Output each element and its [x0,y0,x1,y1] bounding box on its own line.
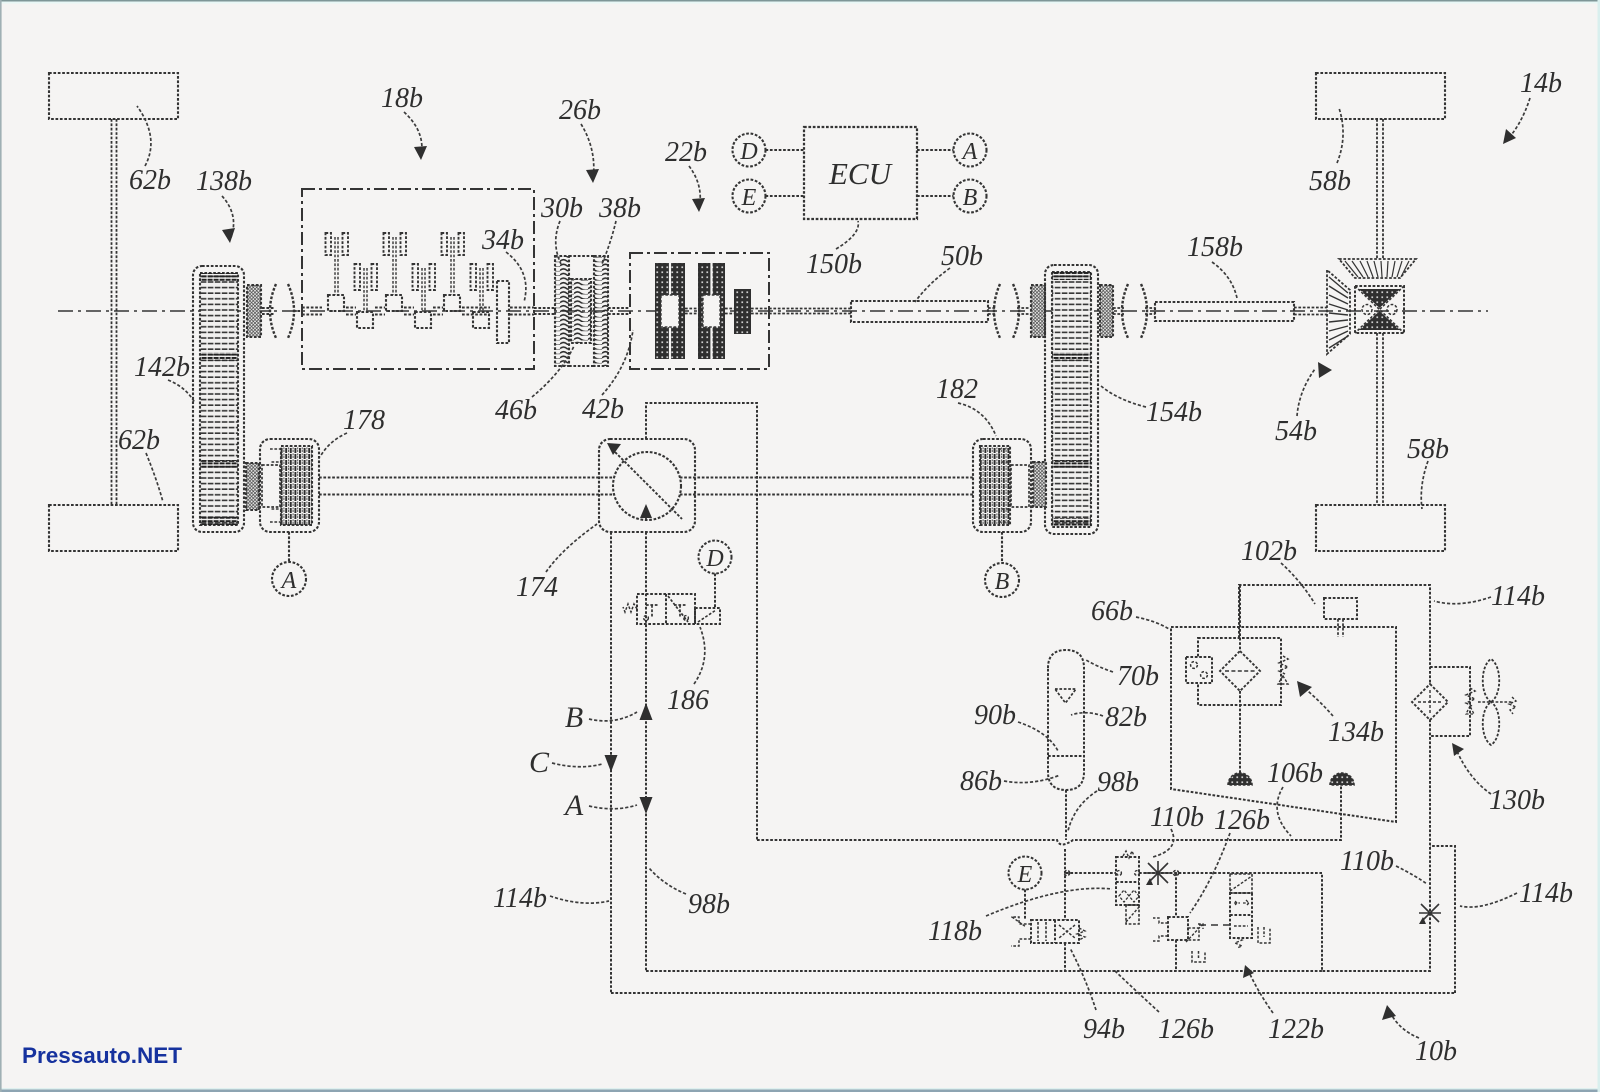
leader 46b [532,346,574,397]
svg-text:102b: 102b [1241,536,1297,567]
ground sensor circle A [272,562,306,596]
clutch 26b left wavy band 30b [555,256,569,366]
svg-text:D: D [739,139,757,165]
pump 174 variable arrow [612,449,682,519]
check dome 106b left [1228,773,1252,785]
svg-text:C: C [529,746,550,779]
wheel 58b bottom-right [1316,505,1445,551]
svg-text:182: 182 [936,374,978,405]
pump inlet arrow [645,508,647,520]
svg-text:130b: 130b [1489,785,1545,816]
valve 110b body [1116,857,1139,905]
svg-text:126b: 126b [1158,1014,1214,1045]
svg-text:110b: 110b [1150,802,1204,833]
CV joint coupling left (parentheses) [270,284,276,338]
svg-text:58b: 58b [1309,166,1351,197]
svg-text:158b: 158b [1187,232,1243,263]
clutch 26b right wavy band 38b [594,256,608,366]
wire 122b to line [1240,872,1242,874]
axle shaft left (vertical) [112,119,117,505]
leader 42b [602,330,633,395]
piston cylinder 6 (down) [471,264,477,290]
relief valve spring in 66b [1279,656,1288,674]
wire line C horizontal bottom 114b [611,992,1455,994]
arrowhead 138b [222,228,235,243]
axle shaft right lower [1377,333,1383,505]
main axis center line [58,310,1488,312]
transmission 22b dash-dot box [630,253,769,369]
solenoid pump symbol in 66b [1186,657,1212,683]
leader 50b [915,268,950,302]
wire ECU to A [917,149,954,151]
svg-text:46b: 46b [495,395,537,426]
star orifice on riser 114b [1419,904,1441,922]
svg-text:E: E [741,185,757,211]
svg-text:138b: 138b [196,166,252,197]
pump 174 circle [613,452,681,520]
valve 110b spring top [1123,851,1134,858]
drive shaft bar 50b [851,301,988,322]
svg-text:154b: 154b [1146,397,1202,428]
svg-text:50b: 50b [941,241,983,272]
gear 138b/142b inner hatched body [200,273,238,525]
cooler diamond [1412,684,1448,720]
svg-text:90b: 90b [974,700,1016,731]
ECU box 150b [804,127,917,219]
pilot circle E [1009,857,1042,890]
wheel 58b top-right [1316,73,1445,119]
arrowhead 134b [1297,681,1312,697]
svg-text:82b: 82b [1105,702,1147,733]
leader A node [589,805,637,809]
wire pto shaft upper (double line clutch178 to clutch182) [319,478,973,495]
wire E to ECU [766,195,805,197]
leader C node [552,763,602,767]
wire E to valve 94b [1024,890,1026,921]
valve 94b pilot bracket [1011,917,1031,946]
valve 122b solenoid top [1230,874,1252,893]
leader 130b [1456,749,1491,794]
svg-text:98b: 98b [1097,767,1139,798]
border frame right [1598,0,1600,1092]
leader 10b [1390,1012,1419,1038]
svg-text:18b: 18b [381,83,423,114]
svg-text:186: 186 [667,685,709,716]
wire 102b drop line through 66b [1239,585,1241,773]
star orifice on line 110b [1146,861,1170,885]
wire line B (x=646 pump down) [645,532,647,971]
sensor circle B right [954,180,987,213]
gear 154b inner hatched body [1052,272,1091,527]
arrowhead 14b [1503,129,1516,144]
ground tank below 126b [1192,951,1205,962]
leader 66b [1136,617,1169,629]
wire line 110b to corner [1139,872,1322,874]
leader 54b [1297,369,1315,416]
spline bearing right of gear 154b [1100,285,1113,337]
CV joint coupling right of 50b [994,284,1000,338]
wire line down to valve 94b [1064,849,1066,971]
sensor circle D top [733,134,766,167]
svg-text:142b: 142b [134,352,190,383]
leader 106b [1277,787,1291,836]
leader 150b [836,221,858,249]
leader 186 [694,627,705,684]
valve 122b spring below [1235,938,1242,948]
svg-text:62b: 62b [118,425,160,456]
wire pump top loop [646,403,757,840]
piston cylinder 4 (down) [413,264,419,290]
leader 102b [1281,563,1315,604]
svg-text:106b: 106b [1267,758,1323,789]
leader 70b [1086,660,1113,672]
accumulator fluid line 86b [1048,755,1084,757]
valve 126b pilot bracket [1153,918,1168,941]
svg-text:54b: 54b [1275,416,1317,447]
leader 38b [602,221,616,264]
svg-text:30b: 30b [540,193,583,224]
leader 58b bottom [1421,461,1428,509]
valve 94b spring [1077,928,1085,940]
arrowhead 10b [1382,1005,1396,1020]
spline coupling gear142b to clutch178 [246,463,259,510]
leader 114b left [550,896,609,903]
svg-text:114b: 114b [1519,878,1573,909]
wire top right box 114b [1239,585,1430,971]
wire accumulator down to return [1065,790,1067,840]
valve 110b solenoid below [1126,905,1139,924]
svg-text:42b: 42b [582,394,624,425]
leader 90b [1018,722,1058,751]
gear pair 1 in 22b [655,263,685,359]
valve 186 body [637,594,695,624]
wire line A horizontal bottom [646,970,1322,972]
check dome 106b right [1330,773,1354,785]
leader 14b [1505,98,1530,142]
wire 106b return line with hop [757,785,1341,845]
leader 142b [168,380,195,403]
wire shaft 22b to bar 50b [769,309,851,314]
leader 34b [506,252,526,302]
clutch 178 piston tab [262,465,280,507]
arrowhead 26b [586,169,599,183]
valve 186 spring [623,604,637,612]
wheel 62b top-left [49,73,178,119]
wire line C (x=611 pump down) [610,532,612,993]
leader 126b first [1190,833,1230,913]
border frame left [0,0,2,1092]
svg-text:A: A [563,789,584,822]
wire ECU to B [917,195,954,197]
wire shaft 158b to differential [1294,308,1327,315]
spline coupling clutch182 to gear154b [1033,462,1046,507]
clutch 182 piston tab [1011,465,1029,507]
wire D to 186 solenoid [714,574,716,609]
leader 98b lower [649,868,686,894]
piston cylinder 5 (up) [442,233,448,255]
svg-text:98b: 98b [688,889,730,920]
leader 158b [1212,262,1237,298]
svg-text:B: B [565,701,583,734]
leader 82b [1071,713,1103,716]
relief unit inner rect [1198,638,1281,705]
accumulator 70b capsule [1048,650,1084,790]
svg-text:34b: 34b [481,225,524,256]
wire clutch178 to circle A [288,532,290,562]
svg-text:22b: 22b [665,137,707,168]
leader 18b [404,112,422,157]
arrowhead 122b [1243,965,1254,978]
svg-text:A: A [961,139,978,165]
arrowhead 22b [692,198,705,212]
clutch 178 housing [260,439,319,532]
leader 110b second [1396,866,1427,884]
border frame bottom [0,1088,1600,1090]
node arrow A on line [640,797,653,814]
piston cylinder 1 (up) [326,233,332,255]
svg-text:B: B [995,569,1010,595]
wire clutch182 to circle B [1001,532,1003,562]
clutch 178 plate pack [281,446,312,525]
leader 62b bottom [146,453,163,502]
differential 54b top bevel gear [1339,259,1416,278]
differential 54b center cross box [1355,286,1404,333]
leader 22b [689,166,700,209]
clutch 26b inner hub 46b [571,279,591,343]
leader 114b right bottom [1460,893,1517,907]
valve 94b body [1031,920,1079,943]
svg-text:26b: 26b [559,95,601,126]
svg-text:38b: 38b [598,193,641,224]
svg-text:110b: 110b [1340,846,1394,877]
leader 114b right top [1434,597,1491,604]
leader 118b [986,888,1112,916]
gear 3 small in 22b [734,289,751,334]
ground tank right of 122b [1258,927,1270,943]
wire stub line E-circuit [1066,872,1116,874]
relief unit 66b box [1171,627,1396,822]
svg-text:10b: 10b [1415,1036,1457,1067]
svg-text:ECU: ECU [828,156,894,191]
gear pair 2 in 22b [698,263,725,359]
leader 86b [1004,775,1060,783]
clutch 182 plate pack [980,446,1010,525]
CV joint coupling right of 154b [1122,284,1128,338]
svg-text:114b: 114b [493,883,547,914]
node arrow C on line [605,755,618,772]
crankshaft main shaft segments [302,308,534,315]
gear 138b/142b outer housing [193,266,244,532]
arrowhead 54b [1318,362,1332,378]
gear 154b outer housing [1045,265,1098,534]
piston cylinder 2 (down) [355,264,361,290]
sensor circle A right [954,134,987,167]
filter diamond in 66b [1220,651,1260,691]
leader 182 [958,403,996,436]
svg-text:150b: 150b [806,249,862,280]
border frame top [0,0,1600,2]
svg-text:86b: 86b [960,766,1002,797]
valve 126b vertical stub [1175,873,1177,971]
svg-text:B: B [963,185,978,211]
ground sensor circle B [985,563,1019,597]
pump 174 housing [599,439,695,532]
svg-text:94b: 94b [1083,1014,1125,1045]
fan blades 130b [1483,659,1500,745]
node port dot [1064,870,1069,875]
leader 110b first [1153,829,1174,857]
leader 154b [1101,386,1146,407]
leader 98b upper [1068,791,1097,831]
engine block 18b dash-dot box [302,189,534,369]
leader 174 [546,524,597,572]
arrowhead 130b [1452,743,1464,756]
svg-text:134b: 134b [1328,717,1384,748]
leader 178 [320,433,347,457]
svg-text:178: 178 [343,405,385,436]
svg-text:66b: 66b [1091,596,1133,627]
svg-text:174: 174 [516,572,558,603]
svg-text:Pressauto.NET: Pressauto.NET [22,1043,182,1068]
sensor circle E left [733,180,766,213]
wire shaft engine to clutch [534,308,630,314]
accumulator gas triangle [1055,689,1076,703]
valve 126b body [1168,917,1188,940]
node ports 186 [644,616,649,621]
node port dots 110b line [1117,871,1122,876]
valve 186 solenoid [695,608,720,624]
svg-text:114b: 114b [1491,581,1545,612]
leader 58b top [1337,108,1343,163]
clutch 26b frame lines [569,256,594,366]
differential 54b left bevel gear [1327,270,1350,354]
leader 94b [1070,948,1096,1010]
pressure unit 102b [1324,598,1357,619]
leader 138b [222,196,234,240]
arrowhead 18b [414,146,427,160]
leader 126b second [1114,970,1159,1012]
leader 30b [556,221,561,264]
drive shaft bar 158b [1155,302,1294,321]
svg-text:E: E [1017,862,1033,888]
wire D to ECU [766,149,805,151]
pilot circle D [699,541,732,574]
svg-text:A: A [280,568,297,594]
svg-text:D: D [705,546,723,572]
clutch 182 housing [973,439,1031,532]
leader 62b top [137,106,151,166]
cooler 130b bypass box [1430,667,1470,736]
flywheel plate 34b [497,281,509,343]
wire pilot dashed 126b to 122b [1199,924,1230,926]
svg-text:70b: 70b [1117,661,1159,692]
spline coupling at shaft level left [247,285,261,337]
wire 114b right outer riser [1430,846,1455,993]
svg-text:14b: 14b [1520,68,1562,99]
cooler relief spring [1466,688,1475,706]
valve 126b variable restrictor [1188,928,1199,940]
wire short shaft gear to engine [262,308,302,314]
leader 26b [581,124,594,180]
leader 134b [1302,686,1333,716]
leader B node [589,712,637,721]
svg-text:58b: 58b [1407,434,1449,465]
svg-text:122b: 122b [1268,1014,1324,1045]
svg-text:62b: 62b [129,165,171,196]
svg-text:126b: 126b [1214,805,1270,836]
valve 122b body [1230,893,1252,938]
wheel 62b bottom-left [49,505,178,551]
leader 122b [1248,970,1273,1013]
node arrow B on line [640,703,653,720]
svg-text:118b: 118b [928,916,982,947]
axle shaft right upper [1377,119,1383,259]
spline bearing left of gear 154b [1031,285,1045,337]
wire shaft through 22b [685,309,769,314]
piston cylinder 3 (up) [384,233,390,255]
